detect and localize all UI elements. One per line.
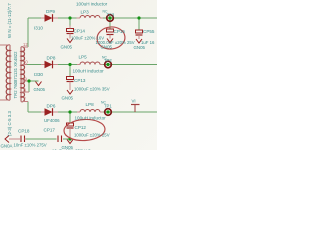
svg-text:LP8: LP8	[86, 102, 95, 107]
svg-text:UF4006: UF4006	[44, 118, 60, 123]
svg-text:100uH inductor: 100uH inductor	[73, 69, 105, 74]
svg-text:CP15: CP15	[114, 29, 126, 34]
svg-text:CP18: CP18	[18, 129, 30, 134]
svg-text:CP12: CP12	[75, 125, 87, 130]
svg-text:LP5: LP5	[79, 55, 88, 60]
svg-text:CP17: CP17	[44, 128, 56, 133]
svg-text:(2-3) C-5 3.3: (2-3) C-5 3.3	[7, 111, 12, 136]
svg-text:CP13: CP13	[74, 78, 86, 83]
svg-text:TP3: TP3	[107, 13, 115, 18]
svg-text:GN05: GN05	[61, 45, 73, 50]
svg-text:CP14: CP14	[74, 29, 86, 34]
svg-text:GN05: GN05	[134, 45, 146, 50]
svg-text:GN05: GN05	[62, 96, 74, 101]
svg-text:GN0A: GN0A	[1, 144, 13, 149]
svg-text:DP9: DP9	[46, 9, 55, 14]
svg-text:100uH inductor: 100uH inductor	[76, 2, 108, 7]
svg-text:CP55: CP55	[143, 29, 155, 34]
svg-text:1000uF ±20% 25V: 1000uF ±20% 25V	[74, 133, 110, 138]
svg-text:12: 12	[23, 42, 28, 47]
svg-text:LP3: LP3	[81, 10, 90, 15]
svg-text:VI: VI	[132, 99, 136, 104]
svg-text:DP8: DP8	[47, 56, 56, 61]
svg-text:GN05: GN05	[34, 87, 46, 92]
svg-text:1uF 16: 1uF 16	[141, 40, 155, 45]
svg-text:I310: I310	[34, 26, 43, 31]
svg-text:100uH inductor: 100uH inductor	[75, 116, 107, 121]
svg-text:10nF ±10% 250VAC: 10nF ±10% 250VAC	[52, 149, 91, 151]
svg-text:TP1: TP1	[104, 104, 112, 109]
svg-text:TP2: TP2	[104, 58, 112, 63]
svg-text:10nF ±10% 275V: 10nF ±10% 275V	[14, 143, 47, 148]
svg-text:1000uF ±20% 35V: 1000uF ±20% 35V	[74, 87, 110, 92]
svg-text:W N = (11-12)/7.7: W N = (11-12)/7.7	[7, 3, 12, 38]
svg-text:I330: I330	[34, 72, 43, 77]
svg-text:GN05: GN05	[101, 45, 113, 50]
svg-text:TR2 760871131 XK4822: TR2 760871131 XK4822	[13, 51, 18, 99]
svg-text:1000.0uF ±20% 25V: 1000.0uF ±20% 25V	[96, 40, 135, 45]
svg-text:10: 10	[23, 60, 28, 65]
svg-text:DP6: DP6	[47, 104, 56, 109]
